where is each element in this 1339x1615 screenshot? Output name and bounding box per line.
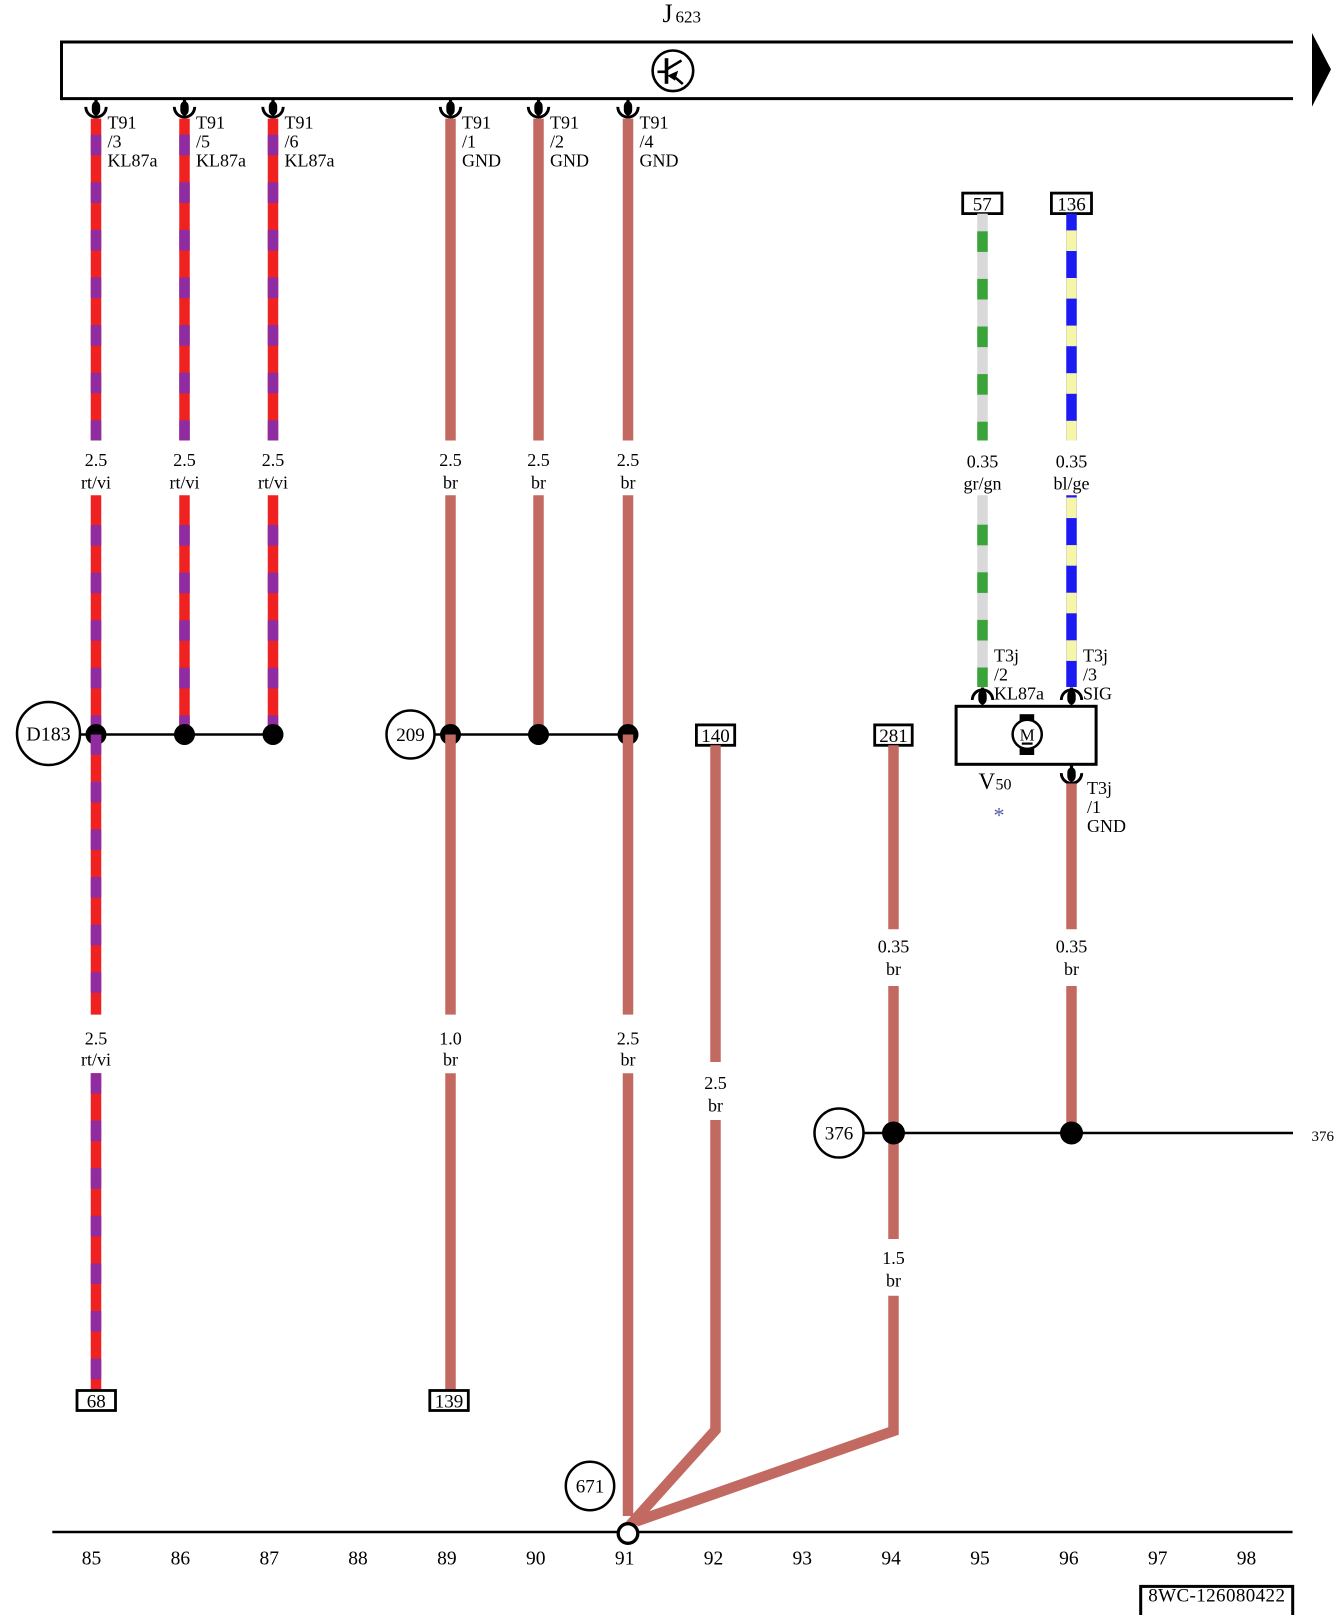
wire size label 2.5 br at x=628 <box>617 450 640 493</box>
wire 2.5 br bottom segment to ground point 671 <box>623 1073 634 1516</box>
wire 2.5 br middle segment at x=538.5 <box>533 495 544 734</box>
junction dot at 87/D183 <box>263 724 284 745</box>
terminal box 136 <box>1051 193 1091 215</box>
wire: ground bus line from D183 <box>80 733 273 736</box>
wire 0.35 br continued to node 376 <box>1066 986 1077 1133</box>
svg-text:97: 97 <box>1148 1549 1168 1570</box>
pin label T91/2 GND <box>550 112 589 170</box>
wire size label 1.0 br <box>439 1028 462 1069</box>
connector terminal T91/4 on J623 <box>618 99 638 118</box>
connector terminal T91/5 on J623 <box>174 99 194 118</box>
wire 2.5 rt/vi upper segment at x=184.5 <box>179 119 190 441</box>
svg-text:gr/gn: gr/gn <box>964 474 1002 494</box>
wire size label 2.5 br at x=538.5 <box>527 450 550 493</box>
wire 2.5 br middle segment at x=450.5 <box>445 495 456 734</box>
wire 0.35 gr/gn upper segment <box>977 214 988 441</box>
wire 1.0 br bottom segment to terminal 139 <box>445 1073 456 1390</box>
svg-text:140: 140 <box>701 726 730 747</box>
svg-text:*: * <box>994 803 1005 828</box>
terminal box 139 <box>430 1391 469 1413</box>
svg-text:T91: T91 <box>550 112 579 132</box>
svg-text:GND: GND <box>550 150 589 170</box>
connector terminal T91/1 on J623 <box>440 99 460 118</box>
svg-text:2.5: 2.5 <box>617 450 640 470</box>
label V50 <box>979 769 1012 794</box>
svg-text:91: 91 <box>615 1549 635 1570</box>
svg-text:50: 50 <box>996 777 1012 794</box>
wire 0.35 br from 281 down <box>888 745 899 929</box>
svg-text:87: 87 <box>259 1549 279 1570</box>
svg-text:V: V <box>979 769 996 794</box>
svg-text:KL87a: KL87a <box>196 150 246 170</box>
wire size label 2.5 rt/vi at x=184.5 <box>170 450 200 493</box>
junction dot at 94/376 <box>882 1122 905 1145</box>
svg-text:br: br <box>1064 959 1079 979</box>
terminal box 57 <box>963 193 1002 215</box>
svg-text:/5: /5 <box>196 131 210 151</box>
svg-text:1.0: 1.0 <box>439 1028 462 1048</box>
svg-text:0.35: 0.35 <box>1056 936 1088 956</box>
wire size label 1.5 br (wire 94) <box>882 1248 905 1290</box>
svg-text:KL87a: KL87a <box>108 150 158 170</box>
pin label T91/1 GND <box>462 112 501 170</box>
wire size label 2.5 br lower <box>617 1028 640 1069</box>
node circle 376 <box>815 1109 864 1158</box>
svg-text:/6: /6 <box>285 131 299 151</box>
wire 2.5 rt/vi bottom segment to terminal 68 <box>91 1073 102 1390</box>
wire size label 0.35 bl/ge <box>1054 452 1090 494</box>
svg-text:/3: /3 <box>1083 665 1097 685</box>
junction dot at 91/209 <box>618 724 639 745</box>
svg-text:GND: GND <box>462 150 501 170</box>
svg-text:GND: GND <box>640 150 679 170</box>
connector terminal T3j/1 below V50 <box>1061 765 1081 784</box>
connector terminal T91/6 on J623 <box>263 99 283 118</box>
svg-text:136: 136 <box>1057 195 1086 216</box>
svg-text:rt/vi: rt/vi <box>81 473 111 493</box>
pin label T91/5 KL87a <box>196 112 246 170</box>
svg-text:J: J <box>663 0 673 28</box>
wire 2.5 rt/vi upper segment at x=273 <box>268 119 279 441</box>
svg-text:/3: /3 <box>108 131 122 151</box>
wire 2.5 rt/vi middle segment at x=184.5 <box>179 495 190 734</box>
wire 0.35 br continued to node 376 <box>888 986 899 1239</box>
wire 2.5 br upper segment at x=538.5 <box>533 119 544 441</box>
terminal box 281 <box>875 725 913 747</box>
wire size label 0.35 br (wire 96) <box>1056 936 1088 979</box>
pin label T3j/1 GND <box>1087 778 1126 836</box>
wire 2.5 rt/vi middle segment at x=273 <box>268 495 279 734</box>
svg-text:br: br <box>531 473 546 493</box>
wire size label 2.5 rt/vi at x=273 <box>258 450 288 493</box>
wire 2.5 br middle segment at x=628 <box>623 495 634 734</box>
wire 0.35 br from V50 down <box>1066 784 1077 930</box>
svg-text:86: 86 <box>171 1549 191 1570</box>
svg-text:2.5: 2.5 <box>439 450 462 470</box>
svg-text:2.5: 2.5 <box>617 1028 640 1048</box>
wire 2.5 br continued (wire 92) with diagonal to ground point 671 <box>630 1120 716 1525</box>
svg-text:T91: T91 <box>108 112 137 132</box>
connector terminal T91/3 on J623 <box>86 99 106 118</box>
svg-text:rt/vi: rt/vi <box>258 473 288 493</box>
terminal box 140 <box>696 725 734 747</box>
svg-text:0.35: 0.35 <box>967 452 999 472</box>
svg-text:376: 376 <box>825 1124 854 1145</box>
wire 1.5 br continued (wire 94) with diagonal to ground point 671 <box>636 1296 894 1522</box>
svg-text:/1: /1 <box>462 131 476 151</box>
svg-text:/4: /4 <box>640 131 654 151</box>
svg-text:96: 96 <box>1059 1549 1079 1570</box>
wire 2.5 br upper segment at x=628 <box>623 119 634 441</box>
svg-text:T91: T91 <box>462 112 491 132</box>
drawing number plate 8WC-126080422 <box>1141 1586 1293 1615</box>
svg-text:T3j: T3j <box>1083 646 1108 666</box>
wire 2.5 br upper segment at x=450.5 <box>445 119 456 441</box>
svg-text:SIG: SIG <box>1083 684 1112 704</box>
svg-text:209: 209 <box>396 725 425 746</box>
svg-text:94: 94 <box>881 1549 901 1570</box>
wire 1.0 br from 209 down <box>445 735 456 1015</box>
svg-text:95: 95 <box>970 1549 990 1570</box>
svg-text:2.5: 2.5 <box>262 450 285 470</box>
svg-text:T91: T91 <box>640 112 669 132</box>
svg-text:br: br <box>621 1050 636 1070</box>
pin label T3j/2 KL87a <box>994 646 1044 704</box>
svg-text:M: M <box>1020 725 1035 744</box>
svg-text:623: 623 <box>676 7 702 26</box>
node circle 209 <box>387 711 435 759</box>
connector terminal T91/2 on J623 <box>528 99 548 118</box>
svg-text:/2: /2 <box>550 131 564 151</box>
svg-text:br: br <box>443 473 458 493</box>
svg-text:0.35: 0.35 <box>878 936 910 956</box>
svg-text:T91: T91 <box>285 112 314 132</box>
node circle 671 <box>566 1462 614 1510</box>
svg-text:2.5: 2.5 <box>85 1028 108 1048</box>
motor component V50 box <box>956 706 1096 764</box>
svg-text:T3j: T3j <box>994 646 1019 666</box>
svg-text:KL87a: KL87a <box>285 150 335 170</box>
pin label T3j/3 SIG <box>1083 646 1112 704</box>
arrow continuation of J623 to the right <box>1312 33 1331 107</box>
label J623 <box>663 0 702 28</box>
svg-text:/2: /2 <box>994 665 1008 685</box>
svg-text:8WC-126080422: 8WC-126080422 <box>1148 1586 1285 1607</box>
svg-text:bl/ge: bl/ge <box>1054 474 1090 494</box>
pin label T91/4 GND <box>640 112 679 170</box>
connector terminal T3j/3 on V50 <box>1061 688 1081 706</box>
junction dot at 86/D183 <box>174 724 195 745</box>
svg-text:89: 89 <box>437 1549 457 1570</box>
svg-text:GND: GND <box>1087 816 1126 836</box>
node circle D183 <box>17 702 80 765</box>
wire size label 0.35 br (wire 94) <box>878 936 910 979</box>
svg-text:br: br <box>886 959 901 979</box>
svg-text:/1: /1 <box>1087 797 1101 817</box>
svg-text:281: 281 <box>879 726 908 747</box>
svg-text:2.5: 2.5 <box>527 450 550 470</box>
junction dot at 85/D183 <box>86 724 107 745</box>
svg-text:KL87a: KL87a <box>994 684 1044 704</box>
wire: bus line from 209 <box>435 733 629 736</box>
svg-text:2.5: 2.5 <box>85 450 108 470</box>
svg-text:93: 93 <box>793 1549 813 1570</box>
svg-text:rt/vi: rt/vi <box>81 1050 111 1070</box>
wire size label 0.35 gr/gn <box>964 452 1002 494</box>
junction dot at 90/209 <box>528 724 549 745</box>
svg-text:1.5: 1.5 <box>882 1248 905 1268</box>
svg-text:90: 90 <box>526 1549 546 1570</box>
svg-text:2.5: 2.5 <box>704 1073 727 1093</box>
svg-text:68: 68 <box>87 1392 106 1413</box>
junction dot at 89/209 <box>440 724 461 745</box>
wire 2.5 rt/vi upper segment at x=96 <box>91 119 102 441</box>
wire 0.35 bl/ge upper segment <box>1066 214 1077 441</box>
terminal box 68 <box>77 1391 116 1413</box>
wire 2.5 br from 140 down <box>710 745 721 1062</box>
wire 0.35 gr/gn lower segment to V50 <box>977 495 988 687</box>
wire size label 2.5 rt/vi at x=96 <box>81 450 111 493</box>
svg-text:671: 671 <box>576 1477 605 1498</box>
svg-text:0.35: 0.35 <box>1056 452 1088 472</box>
svg-text:92: 92 <box>704 1549 724 1570</box>
svg-text:D183: D183 <box>26 724 70 746</box>
svg-text:br: br <box>886 1270 901 1290</box>
wire size label 2.5 br at x=450.5 <box>439 450 462 493</box>
svg-text:T91: T91 <box>196 112 225 132</box>
electronics symbol K inside J623 <box>653 51 694 92</box>
svg-text:br: br <box>443 1050 458 1070</box>
junction dot at 96/376 <box>1060 1122 1083 1145</box>
wire size label 2.5 rt/vi lower <box>81 1028 111 1069</box>
svg-text:85: 85 <box>82 1549 102 1570</box>
wire 2.5 rt/vi from D183 down (segment 3) <box>91 735 102 1015</box>
svg-text:376: 376 <box>1312 1129 1335 1145</box>
control unit J623 bus bar <box>62 41 1294 101</box>
motor symbol M inside V50 <box>1013 714 1042 755</box>
ground terminal 671 open circle <box>618 1524 638 1544</box>
wire size label 2.5 br (wire 92) <box>704 1073 727 1116</box>
wire 0.35 bl/ge lower segment to V50 <box>1066 495 1077 687</box>
svg-text:139: 139 <box>435 1392 464 1413</box>
wire: bus line from 376 to right edge <box>864 1132 1294 1135</box>
svg-text:57: 57 <box>973 195 992 216</box>
wire 2.5 rt/vi middle segment at x=96 <box>91 495 102 734</box>
svg-text:88: 88 <box>348 1549 368 1570</box>
wire 2.5 br from 209 down <box>623 735 634 1015</box>
svg-text:98: 98 <box>1237 1549 1257 1570</box>
pin label T91/6 KL87a <box>285 112 335 170</box>
bottom current track rail <box>52 1531 1292 1534</box>
connector terminal T3j/2 on V50 <box>972 688 992 706</box>
svg-text:rt/vi: rt/vi <box>170 473 200 493</box>
pin label T91/3 KL87a <box>108 112 158 170</box>
svg-text:br: br <box>621 473 636 493</box>
svg-text:2.5: 2.5 <box>173 450 196 470</box>
svg-text:T3j: T3j <box>1087 778 1112 798</box>
svg-text:br: br <box>708 1096 723 1116</box>
